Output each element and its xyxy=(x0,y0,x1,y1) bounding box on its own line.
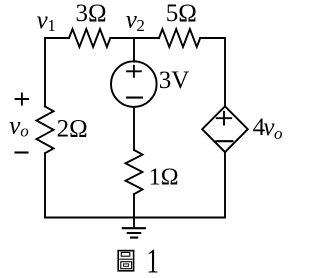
resistor 5-ohm zigzag xyxy=(159,29,200,47)
wire right lower (dependent source to bottom corner) xyxy=(224,152,226,217)
wire left upper (v1 node down to 2-ohm) xyxy=(44,38,46,107)
resistor 1-ohm zigzag xyxy=(126,150,143,194)
plus sign (vo polarity) xyxy=(16,93,29,104)
voltage source V1 circle (3V) xyxy=(111,61,157,107)
svg-text:3Ω: 3Ω xyxy=(76,0,107,27)
resistor 2-ohm zigzag xyxy=(37,107,54,154)
wire bottom xyxy=(45,217,225,219)
wire right upper (corner down to dependent source) xyxy=(224,38,226,106)
svg-text:5Ω: 5Ω xyxy=(166,0,197,27)
label 4vo (dependent source value) xyxy=(253,114,283,143)
wire 1-ohm to ground xyxy=(133,194,135,228)
wire left lower (2-ohm down to bottom corner) xyxy=(44,153,46,217)
minus sign inside diamond xyxy=(217,140,233,142)
wire circle to 1-ohm xyxy=(133,107,135,150)
minus sign (vo polarity) xyxy=(16,151,28,153)
label vo (controlling voltage) xyxy=(9,113,29,141)
svg-text:2Ω: 2Ω xyxy=(57,116,88,143)
svg-text:o: o xyxy=(274,124,283,143)
svg-text:1: 1 xyxy=(146,241,159,278)
svg-text:o: o xyxy=(20,122,29,141)
wire top-left segment (v1 node to 3-ohm) xyxy=(45,37,69,39)
svg-text:1Ω: 1Ω xyxy=(149,164,179,190)
wire top-right segment (5-ohm to right corner) xyxy=(200,37,225,39)
caption character "tu" (figure) drawn as strokes xyxy=(118,251,133,271)
svg-text:1: 1 xyxy=(47,16,56,35)
wire v2 lead (top wire to voltage source) xyxy=(133,38,135,62)
plus sign inside circle xyxy=(127,66,141,77)
resistor 3-ohm zigzag xyxy=(69,29,110,47)
minus sign inside circle xyxy=(127,97,142,99)
svg-text:3V: 3V xyxy=(159,67,190,94)
node v2 label xyxy=(126,6,145,34)
ground symbol xyxy=(123,228,145,237)
plus sign inside diamond xyxy=(217,112,231,125)
wire top-middle segment (3-ohm to 5-ohm through node v2) xyxy=(110,37,159,39)
caption figure number 1 xyxy=(146,241,159,278)
dependent source U1 diamond (4vo) xyxy=(202,106,248,152)
svg-text:2: 2 xyxy=(136,16,145,35)
node v1 label xyxy=(37,7,56,35)
